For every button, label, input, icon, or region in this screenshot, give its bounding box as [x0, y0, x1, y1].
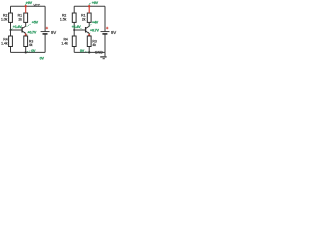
svg-text:+0.7V: +0.7V: [90, 29, 99, 33]
svg-text:VCC: VCC: [33, 3, 40, 7]
svg-text:+0.7V: +0.7V: [27, 31, 36, 35]
svg-text:1.5k: 1.5k: [60, 18, 67, 22]
svg-text:2k: 2k: [82, 18, 86, 22]
svg-text:+1.4V: +1.4V: [72, 25, 81, 29]
svg-text:+1.4V: +1.4V: [13, 25, 22, 29]
svg-text:+4V: +4V: [92, 21, 99, 25]
svg-text:0V: 0V: [80, 49, 85, 53]
svg-text:+9V: +9V: [92, 1, 99, 5]
svg-text:2k: 2k: [18, 18, 22, 22]
svg-text:4k: 4k: [29, 43, 33, 47]
svg-text:9V: 9V: [51, 30, 56, 35]
svg-text:+9V: +9V: [26, 1, 33, 5]
svg-text:4k: 4k: [92, 43, 96, 47]
svg-text:1.0k: 1.0k: [1, 18, 8, 22]
svg-text:+5V: +5V: [32, 20, 39, 24]
svg-text:0V: 0V: [40, 56, 45, 60]
svg-text:1.4k: 1.4k: [61, 42, 68, 46]
svg-text:0V: 0V: [31, 49, 36, 53]
svg-text:GND: GND: [95, 50, 103, 54]
svg-text:1.4k: 1.4k: [1, 42, 8, 46]
svg-text:9V: 9V: [111, 30, 116, 35]
